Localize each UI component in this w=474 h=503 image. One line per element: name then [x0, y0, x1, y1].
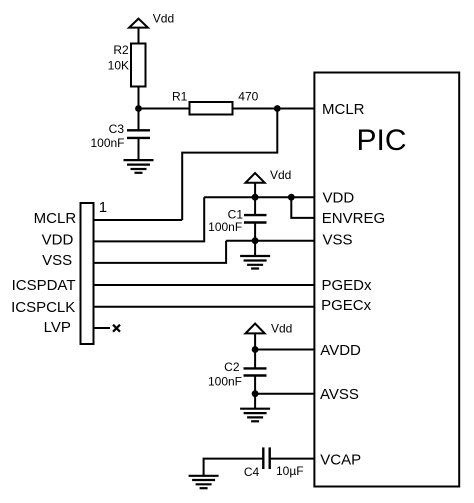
wire connector VDD pin to VDD rail — [94, 197, 205, 241]
svg-text:MCLR: MCLR — [322, 101, 365, 118]
svg-text:Vdd: Vdd — [270, 168, 291, 182]
power Vdd symbol (above C2) — [246, 322, 293, 336]
wire C2 top stub — [254, 350, 256, 369]
svg-text:Vdd: Vdd — [271, 322, 292, 336]
svg-text:C3: C3 — [109, 122, 125, 136]
svg-text:AVDD: AVDD — [320, 342, 361, 359]
resistor R1 — [172, 89, 259, 114]
wire VDD rail to PIC VDD pin — [204, 196, 315, 198]
connector J1 (ICSP header) — [81, 199, 108, 344]
power Vdd symbol (above C1) — [246, 168, 292, 183]
wire C1 top stub — [254, 197, 256, 215]
svg-text:VSS: VSS — [323, 231, 353, 248]
capacitor C2 — [208, 360, 267, 389]
wire node A to C3 — [138, 109, 140, 131]
svg-text:C4: C4 — [244, 465, 260, 479]
svg-text:10µF: 10µF — [276, 464, 304, 478]
wire connector MCLR pin — [94, 219, 183, 221]
svg-text:100nF: 100nF — [208, 375, 242, 389]
svg-text:PGECx: PGECx — [321, 297, 372, 314]
wire C2 bottom stub — [254, 376, 256, 394]
svg-text:100nF: 100nF — [90, 136, 124, 150]
svg-text:ICSPCLK: ICSPCLK — [11, 299, 75, 316]
svg-text:PIC: PIC — [357, 124, 407, 157]
IC U1: PIC microcontroller box — [314, 73, 459, 487]
ground (below C2) — [240, 409, 270, 422]
svg-text:1: 1 — [99, 199, 107, 216]
wire VSS rail to PIC VSS pin — [226, 240, 315, 242]
wire AVDD to PIC — [255, 349, 315, 351]
svg-text:LVP: LVP — [44, 319, 71, 336]
wire ENVREG branch — [291, 197, 315, 218]
no-connect X on LVP — [113, 325, 120, 332]
wire Vdd to VDD rail — [254, 183, 256, 197]
node A junction dot — [135, 105, 142, 112]
svg-text:VCAP: VCAP — [320, 452, 361, 469]
resistor R2 — [108, 43, 146, 86]
svg-text:ENVREG: ENVREG — [322, 210, 385, 227]
svg-text:PGEDx: PGEDx — [322, 277, 373, 294]
svg-text:470: 470 — [238, 89, 258, 103]
wire Vdd to AVDD node — [254, 333, 256, 349]
svg-text:MCLR: MCLR — [34, 210, 77, 227]
wire R2 bottom to node A — [138, 87, 140, 109]
capacitor C3 — [90, 122, 150, 150]
svg-text:VSS: VSS — [42, 252, 72, 269]
wire C1 bottom stub — [254, 223, 256, 241]
wire Vdd to R2 top — [138, 28, 140, 44]
svg-text:Vdd: Vdd — [153, 12, 174, 26]
wire node A to R1 left — [139, 108, 191, 110]
svg-text:10K: 10K — [108, 58, 129, 72]
svg-text:C2: C2 — [224, 360, 240, 374]
node ENVREG branch junction dot — [288, 194, 295, 201]
svg-text:AVSS: AVSS — [320, 386, 359, 403]
wire C2 ground stub — [254, 394, 256, 409]
wire LVP stub (no connect) — [94, 327, 111, 329]
wire C3 to ground — [138, 138, 140, 160]
node AVSS junction dot — [252, 390, 259, 397]
svg-text:R2: R2 — [113, 43, 129, 57]
wire node B down-left to connector MCLR pin — [182, 109, 277, 221]
wire connector VSS pin — [94, 241, 227, 263]
wire VCAP from PIC to C4 — [270, 458, 315, 460]
power Vdd symbol (top, above R2) — [129, 12, 174, 28]
wire node B to PIC MCLR pin — [277, 108, 315, 110]
wire ICSPDAT to PIC PGEDx — [94, 284, 316, 286]
svg-text:ICSPDAT: ICSPDAT — [12, 277, 76, 294]
wire C1 ground stub — [254, 241, 256, 256]
ground (below C1) — [240, 256, 270, 269]
wire ICSPCLK to PIC PGECx — [94, 306, 316, 308]
node B junction dot — [274, 105, 281, 112]
node VDD rail / C1 junction dot — [252, 194, 259, 201]
capacitor C1 — [208, 208, 266, 234]
wire R1 right to node B — [233, 108, 278, 110]
wire AVSS to PIC — [255, 393, 315, 395]
svg-text:VDD: VDD — [42, 232, 74, 249]
svg-text:R1: R1 — [172, 89, 188, 103]
capacitor C4 — [244, 447, 304, 478]
svg-text:VDD: VDD — [323, 190, 355, 207]
ground (below C3) — [124, 160, 154, 173]
ground (below C4) — [189, 476, 219, 488]
node VSS rail / C1 junction dot — [252, 237, 259, 244]
svg-text:100nF: 100nF — [208, 220, 242, 234]
wire C4 left to ground — [204, 459, 264, 476]
node AVDD junction dot — [252, 346, 259, 353]
